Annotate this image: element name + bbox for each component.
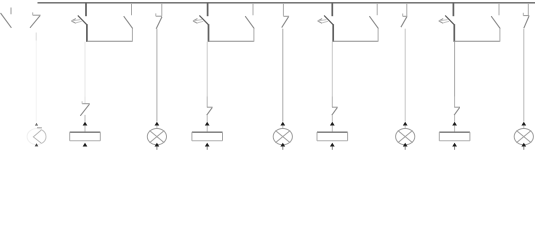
contact S4a (NO) top stub (498, 3, 500, 15)
wire: lamp H3 branch vertical (282, 29, 284, 122)
wire: below NC contact, coil K4 (454, 115, 456, 122)
wire: feeder drop Q1 lower (86, 24, 88, 42)
contact S1a (NO) blade (124, 16, 133, 28)
contact K1.nc blade (80, 104, 89, 116)
lamp H5 (circle with X) (514, 129, 533, 145)
connection-point arrow above coil K2 (205, 122, 210, 126)
wire: faint drop to coil K1 branch (84, 42, 86, 97)
contact S4b (NC) blade (401, 17, 407, 27)
connection-point arrow below coil K1 (83, 143, 88, 147)
contact S0 (NO, clipped at left edge) (1, 8, 12, 28)
contact S2b (NC) blade (156, 17, 162, 29)
actuator arrow of contact Q1 (71, 19, 81, 24)
wire: feeder drop Q3 upper (331, 3, 333, 17)
contact S3b (NC) top stub, lamp H3 branch (282, 3, 284, 16)
connection-point arrow below lamp H5 (521, 143, 526, 147)
wire: feeder drop Q2 lower (208, 24, 210, 42)
wire: stub below coil K2 (206, 147, 208, 150)
coil K3 (317, 132, 348, 141)
contact S2b (NC) top stub, lamp H2 branch (161, 3, 163, 16)
wire: below NC contact, coil K1 (84, 115, 86, 122)
wire: stub below lamp H3 (282, 147, 284, 150)
contact S2b (NC) hook tick (155, 13, 157, 16)
wire: contact S3a lower stub (377, 29, 379, 42)
wire: feeder drop Q1 upper (85, 3, 87, 17)
wire: contact S2a lower stub (253, 29, 255, 42)
wire: feeder drop Q4 upper (452, 3, 454, 17)
coil K2 (192, 132, 223, 141)
contact Q1 blade (NO) (78, 16, 87, 25)
connection-point arrow above lamp H3 (280, 122, 285, 126)
wire: contact S1a lower stub (131, 29, 133, 42)
contact S5b (NC) top stub, lamp H5 branch (527, 3, 529, 15)
contact S2b (NC) stop bar (156, 15, 162, 17)
contact K4.nc stop bar (454, 106, 460, 108)
contact S1b (NC) hook tick (32, 12, 34, 15)
contact Q3 blade (NO) (324, 16, 333, 25)
contact S2a (NO) blade (245, 16, 254, 28)
contact S5b (NC) blade (524, 16, 529, 28)
contact K2.nc stop bar (207, 106, 213, 108)
contact S1b (NC) stop bar (33, 14, 41, 16)
lamp H1 (circle with X) (27, 128, 46, 145)
contact K4.nc blade (454, 108, 460, 116)
connection-point arrow below coil K4 (452, 143, 457, 147)
connection-point arrow above lamp H2 (155, 122, 160, 126)
wire: parallel-branch junction 1 (87, 40, 133, 42)
connection-point arrow above coil K1 (83, 122, 88, 126)
wire: faint drop to coil K4 branch (454, 42, 456, 97)
contact K1.nc hook tick (81, 101, 83, 103)
contact Q4 blade (NO) (445, 16, 454, 25)
contact K3.nc blade (332, 108, 338, 116)
wire: faint drop to coil K2 branch (206, 42, 208, 97)
lamp H2 (circle with X) (147, 129, 166, 145)
connection-point arrow above lamp H5 (521, 122, 526, 126)
connection-point arrow above coil K4 (452, 122, 457, 126)
contact S3b (NC) blade (282, 17, 289, 28)
wire: feeder drop Q4 lower (453, 24, 455, 42)
wire: stub below lamp H4 (404, 147, 406, 150)
connection-point arrow below coil K2 (205, 143, 210, 147)
wire: stub below lamp H2 (156, 147, 158, 150)
actuator arrow of contact Q4 (439, 19, 449, 24)
contact S4b (NC) stop bar (403, 15, 408, 17)
wire: contact S4a lower stub (499, 29, 501, 42)
contact S1b (NC) blade (30, 16, 40, 28)
lamp H4 (circle with X) (396, 129, 415, 145)
coil K4 (439, 132, 470, 141)
wire: terminal stub above contact K2.nc (206, 97, 208, 108)
wire: lamp H4 branch vertical (404, 29, 406, 122)
contact S4b (NC) hook tick (402, 14, 404, 17)
contact S3a (NO) top stub (376, 3, 378, 15)
connection-point arrow below lamp H1 (35, 143, 39, 146)
wire: feeder drop Q3 lower (332, 24, 334, 42)
connection-point arrow below lamp H4 (403, 143, 408, 147)
connection-point arrow below lamp H3 (280, 143, 285, 147)
wire: stub below coil K4 (454, 147, 456, 150)
connection-point arrow above lamp H4 (403, 122, 408, 126)
coil K1 (70, 132, 101, 141)
actuator arrow of contact Q3 (318, 19, 328, 24)
wire: lamp H1 branch vertical (35, 33, 37, 41)
wire: below NC contact, coil K3 (331, 115, 333, 122)
contact S1a (NO) top stub (131, 3, 133, 15)
contact K2.nc blade (207, 108, 213, 116)
contact S5b (NC) hook tick (522, 13, 524, 16)
wire: terminal stub above contact K3.nc (331, 97, 333, 108)
wire: feeder drop Q2 upper (207, 3, 209, 17)
wire: below NC contact, coil K2 (206, 115, 208, 122)
wire: lamp H2 branch vertical (156, 29, 158, 122)
contact S4a (NO) blade (491, 16, 500, 28)
contact S3a (NO) blade (369, 16, 378, 28)
wire: parallel-branch junction 2 (208, 40, 254, 42)
connection-point arrow below lamp H2 (155, 143, 160, 147)
wire: stub below lamp H5 (523, 147, 525, 150)
lamp H3 (circle with X) (273, 129, 292, 145)
wire: faint drop to coil K3 branch (331, 42, 333, 97)
contact K1.nc stop bar (82, 103, 90, 105)
contact S2a (NO) top stub (252, 3, 254, 15)
contact K3.nc stop bar (332, 106, 338, 108)
contact Q2 blade (NO) (199, 16, 208, 25)
wire: parallel-branch junction 4 (454, 40, 500, 42)
actuator arrow of contact Q2 (193, 19, 203, 24)
wire: terminal stub above contact K4.nc (454, 97, 456, 108)
connection-point arrow below coil K3 (330, 143, 335, 147)
contact S3b (NC) stop bar (283, 15, 289, 17)
wire: terminal stub above contact K1.nc (84, 97, 86, 104)
wire: parallel-branch junction 3 (333, 40, 378, 42)
wire: top horizontal bus (38, 2, 535, 4)
connection-point arrow above coil K3 (330, 122, 335, 126)
contact S5b (NC) stop bar (523, 15, 529, 17)
connection-point arrow above lamp H1 (35, 123, 38, 126)
contact S4b (NC) top stub, lamp H4 branch (406, 3, 408, 16)
wire: lamp H5 branch vertical (523, 29, 525, 122)
wire: stub below coil K3 (331, 147, 333, 150)
